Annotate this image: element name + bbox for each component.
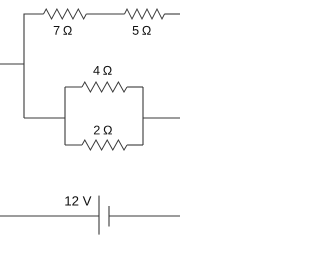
resistor R4 2 ohm <box>82 140 127 150</box>
label R2 value 5 ohm <box>133 26 151 35</box>
wire left lead to edge <box>0 63 24 65</box>
wire left vertical with top corner <box>24 14 44 118</box>
label R1 value 7 ohm <box>54 26 72 35</box>
wire box left vertical <box>64 87 66 145</box>
wire box right vertical <box>142 87 144 145</box>
label R4 value 2 ohm <box>94 126 112 135</box>
wire battery left <box>0 215 99 217</box>
battery plate long positive <box>98 196 100 235</box>
wire top right to edge <box>165 13 181 15</box>
resistor R2 5 ohm <box>125 9 165 19</box>
wire bottom branch right <box>127 144 143 146</box>
wire between R1 and R2 <box>86 13 124 15</box>
resistor R3 4 ohm <box>82 82 127 92</box>
wire into parallel box <box>24 117 65 119</box>
label R3 value 4 ohm <box>93 66 111 75</box>
label battery voltage 12 V <box>65 196 91 205</box>
battery plate short negative <box>108 206 110 227</box>
wire top branch right <box>127 86 143 88</box>
wire top branch left <box>65 86 82 88</box>
wire out of parallel box <box>143 117 180 119</box>
resistor R1 7 ohm <box>44 9 87 19</box>
wire bottom branch left <box>65 144 82 146</box>
wire battery right <box>109 215 180 217</box>
